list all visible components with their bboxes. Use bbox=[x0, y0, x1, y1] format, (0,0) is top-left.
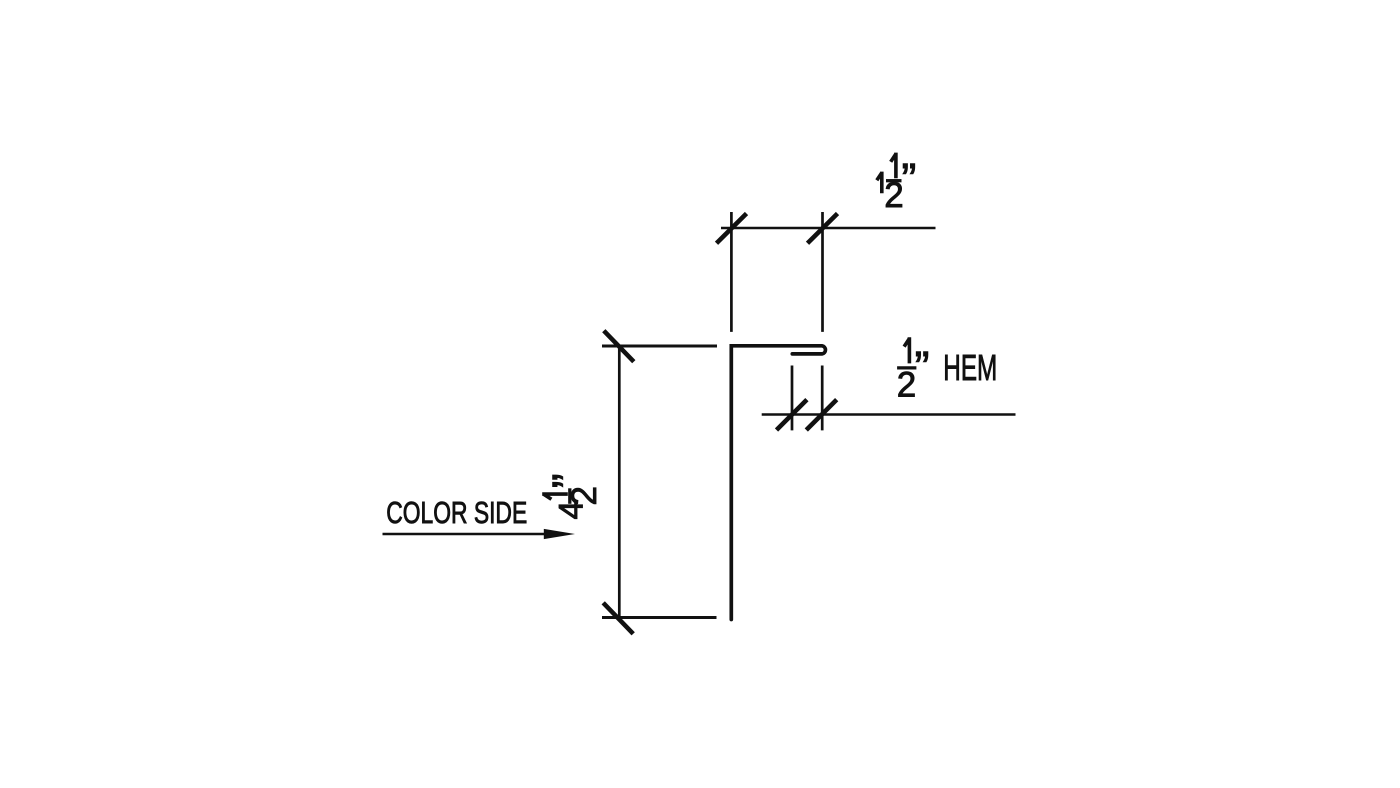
svg-text:COLOR SIDE: COLOR SIDE bbox=[386, 496, 527, 530]
top dimension oblique tick left bbox=[717, 214, 747, 244]
left dimension line (vertical) bbox=[618, 345, 621, 621]
hem dimension extension line left bbox=[791, 366, 794, 431]
hem dimension oblique tick right bbox=[806, 400, 836, 430]
svg-text:”: ” bbox=[543, 473, 594, 488]
hem dimension extension line right bbox=[821, 366, 824, 431]
top dimension text: whole number 1 bbox=[877, 172, 882, 194]
left dimension text 4 1/2 inch rotated bbox=[542, 473, 604, 519]
stacked fraction numerator 1 bbox=[542, 494, 568, 499]
top dimension line bbox=[721, 227, 936, 230]
left dimension extension line top bbox=[602, 345, 717, 348]
hem dimension line bbox=[762, 413, 1016, 416]
color side leader arrowhead bbox=[544, 529, 575, 539]
svg-text:2: 2 bbox=[897, 365, 916, 404]
top dimension extension line right bbox=[821, 212, 824, 332]
left dimension oblique tick bottom bbox=[603, 603, 633, 634]
hem dimension fraction bar bbox=[897, 366, 916, 369]
top dimension extension line left bbox=[730, 212, 733, 332]
svg-text:HEM: HEM bbox=[943, 347, 997, 388]
color side leader arrow line bbox=[383, 533, 556, 536]
flashing profile (vertical face, top leg, 1/2in hem fold) bbox=[731, 346, 825, 620]
svg-text:”: ” bbox=[915, 342, 930, 393]
top dimension fraction bar bbox=[886, 179, 902, 182]
hem dimension stacked fraction numerator 1 bbox=[904, 337, 909, 363]
left dimension extension line bottom bbox=[602, 616, 717, 619]
hem dimension oblique tick left bbox=[777, 400, 807, 430]
top dimension stacked fraction numerator 1 bbox=[891, 153, 896, 179]
fraction bar bbox=[568, 488, 571, 504]
svg-text:”: ” bbox=[901, 154, 916, 205]
top dimension oblique tick right bbox=[808, 214, 838, 244]
left dimension oblique tick top bbox=[604, 331, 634, 362]
